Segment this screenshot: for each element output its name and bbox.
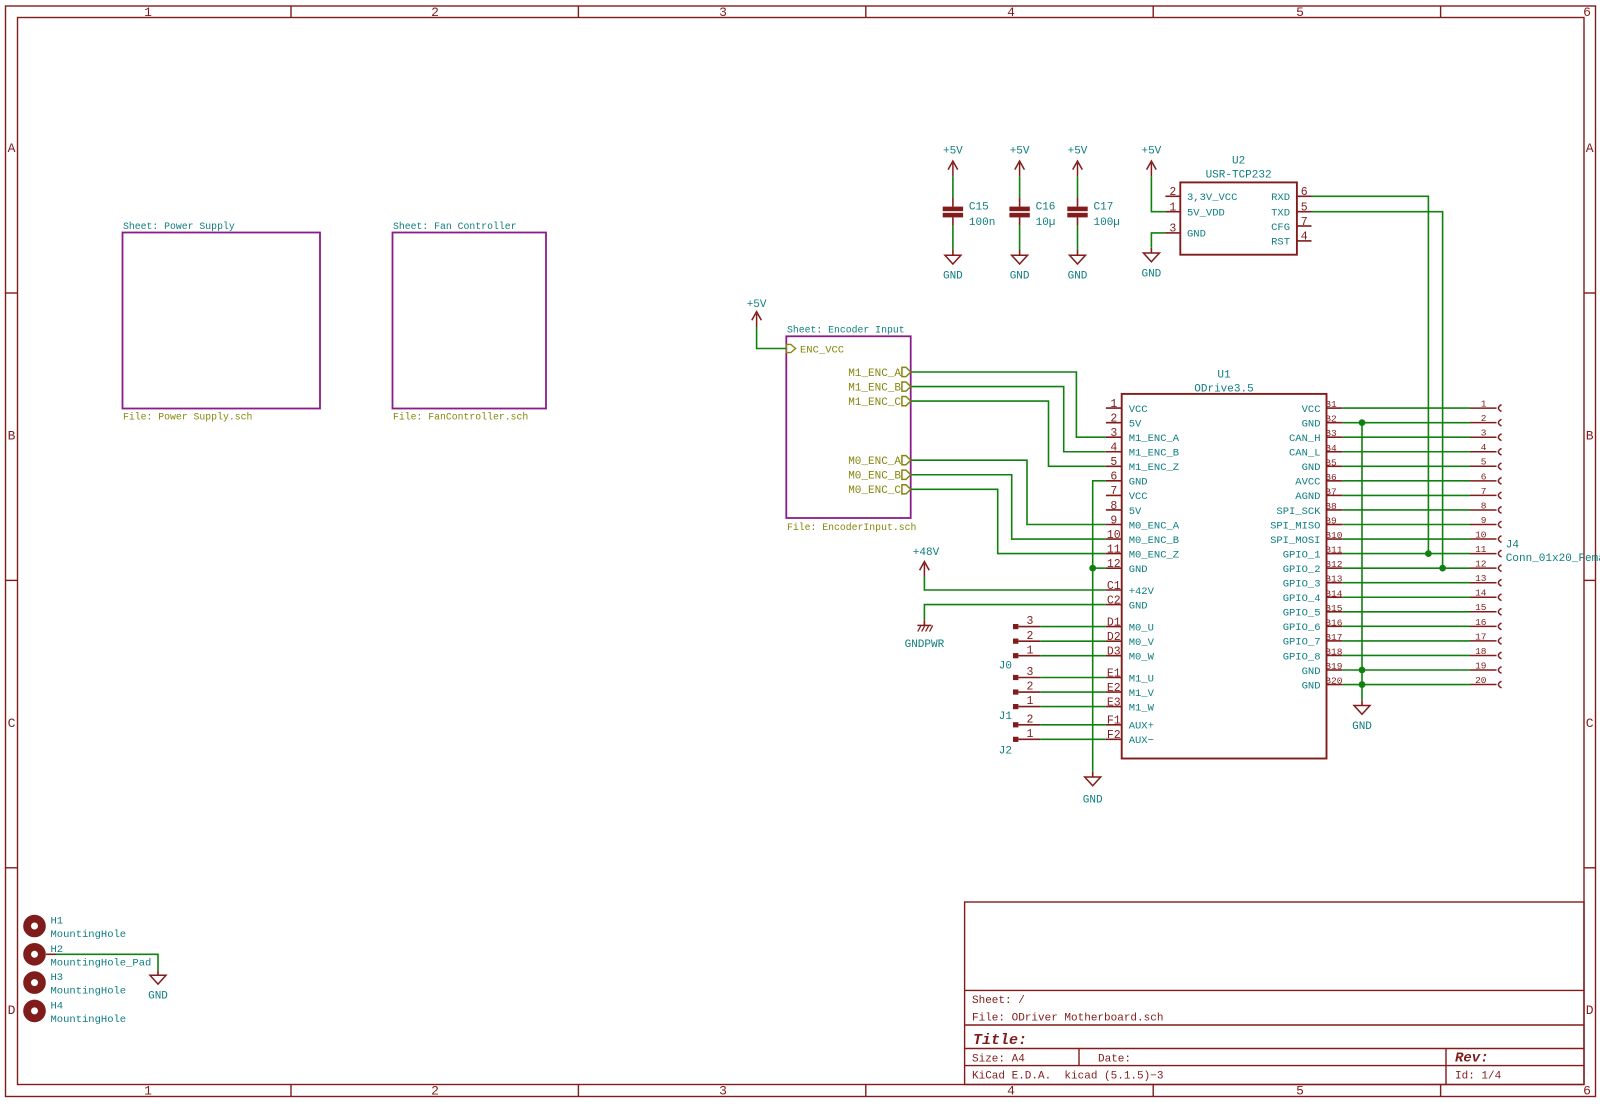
wire B19 to J4 pin 19 bbox=[1342, 669, 1470, 671]
J0 pin 2 bbox=[1013, 639, 1018, 644]
svg-text:C1: C1 bbox=[1107, 580, 1121, 593]
svg-text:GND: GND bbox=[1352, 721, 1372, 733]
J0 pin 1 bbox=[1013, 653, 1018, 658]
svg-text:KiCad E.D.A. kicad (5.1.5)−3: KiCad E.D.A. kicad (5.1.5)−3 bbox=[972, 1071, 1163, 1083]
sheet pin M0_ENC_BD bbox=[902, 470, 911, 479]
svg-text:U2: U2 bbox=[1232, 155, 1245, 167]
U1 pin 8 5V bbox=[1106, 509, 1122, 511]
U1 pin E3 M1_W bbox=[1106, 706, 1122, 708]
J4 pin 9 bbox=[1470, 524, 1497, 526]
wire B9 to J4 pin 9 bbox=[1342, 524, 1470, 526]
J4 pin 5 bbox=[1470, 465, 1497, 467]
svg-text:SPI_MISO: SPI_MISO bbox=[1270, 520, 1320, 532]
wire encoder to U1 bbox=[911, 475, 1106, 539]
J2 pin 2 bbox=[1013, 722, 1018, 727]
svg-text:M0_U: M0_U bbox=[1129, 622, 1154, 634]
U1 pin C2 GND bbox=[1106, 604, 1122, 606]
J4 pin 17 bbox=[1470, 640, 1497, 642]
junction GPIO_2 bbox=[1439, 565, 1446, 572]
U1 pin B8 SPI_SCK bbox=[1327, 509, 1343, 511]
svg-text:M1_ENC_A: M1_ENC_A bbox=[848, 368, 901, 380]
J4 pin 20 bbox=[1470, 684, 1497, 686]
svg-text:GND: GND bbox=[1302, 680, 1321, 692]
wire B16 to J4 pin 16 bbox=[1342, 625, 1470, 627]
svg-text:GND: GND bbox=[1083, 795, 1103, 807]
wire encoder to U1 bbox=[911, 372, 1106, 437]
svg-text:MountingHole_Pad: MountingHole_Pad bbox=[51, 957, 152, 969]
ground GNDPWR bbox=[923, 620, 925, 625]
svg-text:J4: J4 bbox=[1506, 540, 1520, 552]
junction B19 bbox=[1359, 667, 1366, 674]
wire U2 TXD to GPIO_2 bbox=[1312, 212, 1443, 568]
U1 pin 5 M1_ENC_Z bbox=[1106, 465, 1122, 467]
H2 pin stub bbox=[46, 953, 56, 955]
svg-text:GPIO_5: GPIO_5 bbox=[1283, 608, 1321, 620]
J1 pin 3 bbox=[1013, 675, 1018, 680]
svg-text:C15: C15 bbox=[969, 202, 989, 214]
svg-text:Sheet: Fan Controller: Sheet: Fan Controller bbox=[393, 221, 516, 232]
wire B20 to J4 pin 20 bbox=[1342, 684, 1470, 686]
ground (H2) bbox=[157, 970, 159, 975]
svg-text:6: 6 bbox=[1583, 5, 1591, 20]
power +48V bbox=[923, 564, 925, 576]
svg-text:19: 19 bbox=[1475, 660, 1487, 671]
wire B6 to J4 pin 6 bbox=[1342, 480, 1470, 482]
svg-text:M0_W: M0_W bbox=[1129, 652, 1155, 664]
wire B17 to J4 pin 17 bbox=[1342, 640, 1470, 642]
svg-text:M0_ENC_A: M0_ENC_A bbox=[848, 456, 901, 468]
wire C17 to GND bbox=[1077, 226, 1079, 250]
U1 pin 6 GND bbox=[1106, 480, 1122, 482]
op-amp U2 USR-TCP232 bbox=[1180, 182, 1297, 254]
svg-text:4: 4 bbox=[1007, 1084, 1015, 1099]
J1 pin 2 bbox=[1013, 689, 1018, 694]
svg-text:B14: B14 bbox=[1325, 588, 1342, 599]
capacitor C15 bbox=[952, 197, 954, 206]
svg-text:B12: B12 bbox=[1325, 559, 1342, 570]
svg-text:VCC: VCC bbox=[1302, 404, 1321, 416]
svg-text:C17: C17 bbox=[1094, 202, 1114, 214]
svg-text:ENC_VCC: ENC_VCC bbox=[800, 344, 844, 356]
wire B18 to J4 pin 18 bbox=[1342, 654, 1470, 656]
title block bbox=[965, 902, 1584, 1085]
svg-text:MountingHole: MountingHole bbox=[51, 986, 127, 998]
power +5V (U2) bbox=[1150, 163, 1152, 176]
U1 pin F1 AUX+ bbox=[1106, 724, 1122, 726]
svg-text:1: 1 bbox=[1027, 728, 1034, 741]
svg-text:B5: B5 bbox=[1325, 457, 1337, 468]
U1 pin E2 M1_V bbox=[1106, 691, 1122, 693]
svg-text:11: 11 bbox=[1107, 543, 1121, 556]
U1 pin B16 GPIO_6 bbox=[1327, 625, 1343, 627]
svg-text:8: 8 bbox=[1481, 500, 1487, 511]
svg-text:100n: 100n bbox=[969, 217, 995, 229]
svg-text:GND: GND bbox=[1010, 271, 1030, 283]
svg-text:U1: U1 bbox=[1217, 369, 1231, 381]
U1 pin B11 GPIO_1 bbox=[1327, 553, 1343, 555]
svg-text:17: 17 bbox=[1475, 631, 1486, 642]
svg-text:File: FanController.sch: File: FanController.sch bbox=[393, 412, 528, 423]
svg-text:+5V: +5V bbox=[1141, 146, 1161, 158]
svg-text:+5V: +5V bbox=[943, 146, 963, 158]
svg-text:Id: 1/4: Id: 1/4 bbox=[1455, 1071, 1502, 1083]
J0 pin 3 bbox=[1013, 624, 1018, 629]
svg-text:C: C bbox=[1586, 716, 1594, 731]
wire B15 to J4 pin 15 bbox=[1342, 611, 1470, 613]
svg-text:18: 18 bbox=[1475, 646, 1487, 657]
svg-text:10: 10 bbox=[1475, 529, 1487, 540]
svg-text:E3: E3 bbox=[1107, 696, 1121, 709]
svg-text:Sheet: /: Sheet: / bbox=[972, 995, 1025, 1007]
power +5V (C17) bbox=[1077, 163, 1079, 176]
wire encoder to U1 bbox=[911, 401, 1106, 466]
svg-text:2: 2 bbox=[431, 1084, 439, 1099]
junction B20 bbox=[1359, 681, 1366, 688]
wire B5 to J4 pin 5 bbox=[1342, 465, 1470, 467]
svg-text:GPIO_3: GPIO_3 bbox=[1283, 579, 1321, 591]
wire B10 to J4 pin 10 bbox=[1342, 538, 1470, 540]
J1 pin 1 bbox=[1013, 704, 1018, 709]
svg-text:H1: H1 bbox=[51, 916, 64, 928]
svg-text:M1_ENC_A: M1_ENC_A bbox=[1129, 433, 1180, 445]
svg-text:2: 2 bbox=[1481, 413, 1487, 424]
U1 pin F2 AUX− bbox=[1106, 738, 1122, 740]
sheet pin M1_ENC_CD bbox=[902, 397, 911, 406]
J4 pin 1 bbox=[1470, 407, 1497, 409]
wire B12 to J4 pin 12 bbox=[1342, 567, 1470, 569]
wire U2 RXD to GPIO_1 bbox=[1312, 196, 1429, 553]
junction B2 bbox=[1359, 419, 1366, 426]
svg-text:15: 15 bbox=[1475, 602, 1487, 613]
svg-text:F1: F1 bbox=[1107, 715, 1121, 728]
wire C15 to GND bbox=[952, 226, 954, 250]
svg-text:Sheet: Encoder Input: Sheet: Encoder Input bbox=[787, 325, 905, 336]
svg-text:GND: GND bbox=[943, 271, 963, 283]
U2 pin 4 RST bbox=[1297, 240, 1312, 242]
svg-text:J1: J1 bbox=[999, 711, 1013, 723]
sheet Fan Controller bbox=[393, 233, 547, 409]
U2 pin 5 TXD bbox=[1297, 211, 1312, 213]
U1 pin B7 AGND bbox=[1327, 494, 1343, 496]
U1 pin B4 CAN_L bbox=[1327, 451, 1343, 453]
svg-text:6: 6 bbox=[1110, 471, 1117, 484]
J4 pin 2 bbox=[1470, 422, 1497, 424]
sheet pin ENC_VCC bbox=[786, 344, 795, 352]
svg-text:GNDPWR: GNDPWR bbox=[905, 639, 945, 651]
svg-text:GPIO_8: GPIO_8 bbox=[1283, 651, 1321, 663]
U1 pin B2 GND bbox=[1327, 422, 1343, 424]
svg-text:10: 10 bbox=[1107, 529, 1121, 542]
svg-text:B11: B11 bbox=[1325, 545, 1342, 556]
svg-text:6: 6 bbox=[1301, 186, 1308, 199]
svg-text:B19: B19 bbox=[1325, 661, 1342, 672]
svg-text:GND: GND bbox=[1129, 564, 1148, 576]
svg-text:+42V: +42V bbox=[1129, 586, 1155, 598]
power +5V (C15) bbox=[952, 163, 954, 176]
svg-text:3: 3 bbox=[1027, 666, 1034, 679]
svg-text:1: 1 bbox=[1110, 398, 1117, 411]
U1 pin B17 GPIO_7 bbox=[1327, 640, 1343, 642]
U1 pin B10 SPI_MOSI bbox=[1327, 538, 1343, 540]
capacitor C17 bbox=[1077, 197, 1079, 206]
svg-text:10µ: 10µ bbox=[1036, 217, 1056, 229]
junction GPIO_1 bbox=[1425, 550, 1432, 557]
wire encoder to U1 bbox=[911, 387, 1106, 452]
svg-text:Sheet: Power Supply: Sheet: Power Supply bbox=[123, 221, 235, 232]
svg-text:1: 1 bbox=[1169, 202, 1176, 215]
svg-text:GND: GND bbox=[148, 991, 168, 1003]
U2 pin 2 3,3V_VCC bbox=[1165, 195, 1180, 197]
U1 pin D1 M0_U bbox=[1106, 626, 1122, 628]
svg-text:5V: 5V bbox=[1129, 506, 1142, 518]
U1 pin C1 +42V bbox=[1106, 589, 1122, 591]
svg-text:RST: RST bbox=[1271, 237, 1290, 249]
svg-text:B18: B18 bbox=[1325, 646, 1342, 657]
svg-text:File: ODriver Motherboard.sch: File: ODriver Motherboard.sch bbox=[972, 1013, 1163, 1025]
svg-text:+5V: +5V bbox=[1068, 146, 1088, 158]
J4 pin 15 bbox=[1470, 611, 1497, 613]
svg-text:M1_ENC_B: M1_ENC_B bbox=[1129, 448, 1179, 460]
svg-text:12: 12 bbox=[1107, 558, 1121, 571]
svg-text:D: D bbox=[8, 1003, 16, 1018]
U1 pin 11 M0_ENC_Z bbox=[1106, 553, 1122, 555]
wire encoder to U1 bbox=[911, 489, 1106, 553]
svg-text:5: 5 bbox=[1301, 202, 1308, 215]
svg-text:8: 8 bbox=[1110, 500, 1117, 513]
IC U1 ODrive3.5 bbox=[1122, 394, 1327, 759]
svg-text:+5V: +5V bbox=[1010, 146, 1030, 158]
svg-text:C16: C16 bbox=[1036, 202, 1056, 214]
svg-text:6: 6 bbox=[1481, 471, 1487, 482]
U1 pin B3 CAN_H bbox=[1327, 436, 1343, 438]
svg-text:B7: B7 bbox=[1325, 486, 1336, 497]
J4 pin 13 bbox=[1470, 582, 1497, 584]
wire +5V to U2 pin 1 bbox=[1151, 176, 1165, 211]
capacitor C16 bbox=[1019, 197, 1021, 206]
U1 pin D2 M0_V bbox=[1106, 640, 1122, 642]
ground (C17) bbox=[1077, 250, 1079, 255]
svg-text:M1_ENC_Z: M1_ENC_Z bbox=[1129, 462, 1179, 474]
J4 pin 10 bbox=[1470, 538, 1497, 540]
U1 pin 1 VCC bbox=[1106, 407, 1122, 409]
svg-text:GPIO_4: GPIO_4 bbox=[1283, 593, 1321, 605]
svg-text:Conn_01x20_Female: Conn_01x20_Female bbox=[1506, 553, 1600, 565]
svg-text:2: 2 bbox=[1110, 412, 1117, 425]
wire U1 pin12 GND bbox=[1093, 567, 1106, 569]
wire B13 to J4 pin 13 bbox=[1342, 582, 1470, 584]
U1 pin B15 GPIO_5 bbox=[1327, 611, 1343, 613]
U1 pin 12 GND bbox=[1106, 567, 1122, 569]
svg-text:A: A bbox=[1586, 141, 1594, 156]
svg-text:B13: B13 bbox=[1325, 574, 1342, 585]
J4 pin 16 bbox=[1470, 625, 1497, 627]
svg-text:GPIO_6: GPIO_6 bbox=[1283, 622, 1321, 634]
svg-text:ODrive3.5: ODrive3.5 bbox=[1194, 383, 1253, 395]
svg-text:SPI_MOSI: SPI_MOSI bbox=[1270, 535, 1320, 547]
U1 pin B19 GND bbox=[1327, 669, 1343, 671]
svg-text:6: 6 bbox=[1583, 1084, 1591, 1099]
svg-text:1: 1 bbox=[1027, 644, 1034, 657]
svg-text:E1: E1 bbox=[1107, 667, 1121, 680]
svg-text:Title:: Title: bbox=[973, 1032, 1027, 1049]
svg-text:VCC: VCC bbox=[1129, 491, 1148, 503]
U2 pin 1 5V_VDD bbox=[1165, 211, 1180, 213]
svg-text:E2: E2 bbox=[1107, 682, 1121, 695]
mounting hole H1 bbox=[27, 919, 42, 934]
power +5V (C16) bbox=[1019, 163, 1021, 176]
svg-text:B4: B4 bbox=[1325, 443, 1337, 454]
svg-text:M0_ENC_A: M0_ENC_A bbox=[1129, 520, 1180, 532]
wire encoder to U1 bbox=[911, 460, 1106, 524]
wire +48V to U1 C1 bbox=[924, 576, 1106, 590]
svg-text:SPI_SCK: SPI_SCK bbox=[1276, 506, 1321, 518]
svg-text:C2: C2 bbox=[1107, 594, 1121, 607]
svg-text:1: 1 bbox=[144, 5, 152, 20]
svg-text:AUX−: AUX− bbox=[1129, 735, 1154, 747]
svg-text:9: 9 bbox=[1110, 514, 1117, 527]
svg-text:3: 3 bbox=[1110, 427, 1117, 440]
svg-text:M1_U: M1_U bbox=[1129, 673, 1154, 685]
wire B14 to J4 pin 14 bbox=[1342, 596, 1470, 598]
svg-text:MountingHole: MountingHole bbox=[51, 1014, 127, 1026]
svg-text:CAN_H: CAN_H bbox=[1289, 433, 1321, 445]
svg-text:5: 5 bbox=[1110, 456, 1117, 469]
svg-text:5V: 5V bbox=[1129, 418, 1142, 430]
wire U1 C2 to GNDPWR bbox=[924, 605, 1106, 621]
wire +5V to C17 bbox=[1077, 176, 1079, 197]
U1 pin B1 VCC bbox=[1327, 407, 1343, 409]
svg-text:Size: A4: Size: A4 bbox=[972, 1054, 1025, 1066]
ground (C15) bbox=[952, 250, 954, 255]
svg-text:GND: GND bbox=[1068, 271, 1088, 283]
svg-text:5: 5 bbox=[1296, 5, 1304, 20]
svg-text:13: 13 bbox=[1475, 573, 1487, 584]
wire +5V to C15 bbox=[952, 176, 954, 197]
svg-text:B20: B20 bbox=[1325, 676, 1342, 687]
svg-text:D1: D1 bbox=[1107, 616, 1121, 629]
J4 pin 12 bbox=[1470, 567, 1497, 569]
svg-text:1: 1 bbox=[144, 1084, 152, 1099]
wire U2 pin 3 to GND bbox=[1151, 233, 1165, 248]
wire B11 to J4 pin 11 bbox=[1342, 553, 1470, 555]
svg-text:14: 14 bbox=[1475, 588, 1487, 599]
svg-text:B15: B15 bbox=[1325, 603, 1342, 614]
svg-text:B10: B10 bbox=[1325, 530, 1342, 541]
wire +5V to ENC_VCC bbox=[757, 327, 787, 349]
J4 pin 7 bbox=[1470, 494, 1497, 496]
frame row ticks bbox=[6, 292, 18, 294]
U1 pin B14 GPIO_4 bbox=[1327, 596, 1343, 598]
J4 pin 4 bbox=[1470, 451, 1497, 453]
svg-text:B8: B8 bbox=[1325, 501, 1337, 512]
U1 pin 7 VCC bbox=[1106, 494, 1122, 496]
svg-text:9: 9 bbox=[1481, 515, 1487, 526]
svg-text:TXD: TXD bbox=[1271, 208, 1290, 220]
svg-text:GPIO_1: GPIO_1 bbox=[1283, 549, 1321, 561]
svg-text:J2: J2 bbox=[999, 746, 1012, 758]
U1 pin 3 M1_ENC_A bbox=[1106, 436, 1122, 438]
svg-text:M1_V: M1_V bbox=[1129, 688, 1155, 700]
wire B3 to J4 pin 3 bbox=[1342, 436, 1470, 438]
wire +5V to C16 bbox=[1019, 176, 1021, 197]
svg-text:File: EncoderInput.sch: File: EncoderInput.sch bbox=[787, 522, 916, 533]
J4 pin 8 bbox=[1470, 509, 1497, 511]
wire H2 to GND bbox=[56, 954, 158, 970]
svg-text:2: 2 bbox=[1027, 713, 1034, 726]
U1 pin 9 M0_ENC_A bbox=[1106, 524, 1122, 526]
svg-text:D: D bbox=[1586, 1003, 1594, 1018]
J4 pin 3 bbox=[1470, 436, 1497, 438]
svg-text:GND: GND bbox=[1129, 600, 1148, 612]
svg-text:AUX+: AUX+ bbox=[1129, 721, 1154, 733]
U1 pin B18 GPIO_8 bbox=[1327, 654, 1343, 656]
svg-text:MountingHole: MountingHole bbox=[51, 929, 127, 941]
svg-text:B6: B6 bbox=[1325, 472, 1337, 483]
svg-text:D2: D2 bbox=[1107, 631, 1121, 644]
svg-text:2: 2 bbox=[1027, 681, 1034, 694]
svg-text:RXD: RXD bbox=[1271, 192, 1290, 204]
svg-text:3: 3 bbox=[1481, 428, 1487, 439]
J2 pin 1 bbox=[1013, 737, 1018, 742]
svg-text:4: 4 bbox=[1007, 5, 1015, 20]
svg-text:7: 7 bbox=[1481, 486, 1487, 497]
svg-text:3: 3 bbox=[1027, 615, 1034, 628]
svg-text:GND: GND bbox=[1302, 462, 1321, 474]
svg-text:GPIO_7: GPIO_7 bbox=[1283, 637, 1321, 649]
J4 pin 11 bbox=[1470, 553, 1497, 555]
svg-text:H4: H4 bbox=[51, 1000, 64, 1012]
J4 pin 18 bbox=[1470, 654, 1497, 656]
svg-text:B17: B17 bbox=[1325, 632, 1342, 643]
svg-text:20: 20 bbox=[1475, 675, 1487, 686]
svg-text:B3: B3 bbox=[1325, 428, 1337, 439]
frame column ticks bbox=[290, 6, 292, 18]
svg-text:H3: H3 bbox=[51, 972, 64, 984]
svg-text:M1_ENC_C: M1_ENC_C bbox=[848, 397, 901, 409]
U1 pin B9 SPI_MISO bbox=[1327, 524, 1343, 526]
svg-text:Date:: Date: bbox=[1098, 1054, 1131, 1066]
U1 pin 2 5V bbox=[1106, 422, 1122, 424]
ground (J4 bus) bbox=[1361, 700, 1363, 705]
svg-text:7: 7 bbox=[1301, 216, 1308, 229]
sheet pin M1_ENC_BD bbox=[902, 382, 911, 391]
svg-text:2: 2 bbox=[1027, 630, 1034, 643]
U1 pin B12 GPIO_2 bbox=[1327, 567, 1343, 569]
svg-text:GND: GND bbox=[1302, 666, 1321, 678]
svg-text:B9: B9 bbox=[1325, 516, 1337, 527]
U1 pin B13 GPIO_3 bbox=[1327, 582, 1343, 584]
svg-text:M0_V: M0_V bbox=[1129, 637, 1155, 649]
svg-text:4: 4 bbox=[1110, 442, 1117, 455]
svg-text:3: 3 bbox=[719, 5, 727, 20]
junction pin12 bbox=[1089, 565, 1096, 572]
svg-text:4: 4 bbox=[1481, 442, 1487, 453]
ground (C16) bbox=[1019, 250, 1021, 255]
svg-text:C: C bbox=[8, 716, 16, 731]
svg-text:B2: B2 bbox=[1325, 414, 1337, 425]
U1 pin 4 M1_ENC_B bbox=[1106, 451, 1122, 453]
power +5V (encoder) bbox=[756, 314, 758, 327]
svg-text:5V_VDD: 5V_VDD bbox=[1187, 208, 1225, 220]
svg-text:D3: D3 bbox=[1107, 646, 1121, 659]
svg-text:USR-TCP232: USR-TCP232 bbox=[1206, 170, 1272, 182]
svg-text:3,3V_VCC: 3,3V_VCC bbox=[1187, 192, 1237, 204]
J4 pin 6 bbox=[1470, 480, 1497, 482]
sheet pin M0_ENC_AD bbox=[902, 456, 911, 465]
svg-text:2: 2 bbox=[1169, 186, 1176, 199]
svg-text:B: B bbox=[8, 429, 16, 444]
U2 pin 3 GND bbox=[1165, 232, 1180, 234]
